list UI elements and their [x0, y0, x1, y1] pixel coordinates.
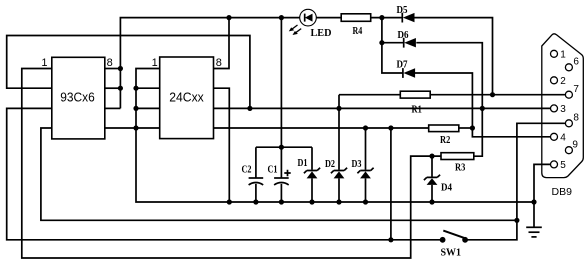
wire: R1 right to DB9 pin 7 [430, 94, 565, 96]
DB9 pin 9 [565, 147, 572, 154]
DB9 pin 3 [551, 105, 558, 112]
wire: D7 to corner, down, pin4 wire to DB9 pin 4 [413, 73, 550, 137]
svg-text:3: 3 [560, 104, 566, 115]
wire: rail from LED wire down to C1 top [280, 18, 282, 148]
wire: 93Cx6 right pin 6 [105, 107, 121, 109]
svg-text:DB9: DB9 [552, 186, 573, 198]
svg-text:D7: D7 [397, 59, 408, 70]
svg-text:1: 1 [41, 57, 47, 69]
resistor R1 [400, 91, 430, 98]
wire: D5 right, down rail to R1 wire [415, 18, 493, 95]
svg-text:8: 8 [573, 113, 579, 124]
wire: C1 leads [280, 147, 282, 202]
zener diode D3 [352, 159, 374, 178]
wire: 24Cxx left pin 3 [136, 107, 160, 109]
DB9 pin 7 [565, 91, 572, 98]
wire: 24Cxx pin3 long wire to DB9 pin 3 [214, 107, 551, 109]
junction dot: D7 rail on R2 right wire [470, 125, 475, 130]
junction dot: LED wire / D5-D7 rail [379, 15, 384, 20]
svg-text:2: 2 [560, 76, 566, 87]
svg-text:1: 1 [152, 57, 158, 69]
diode D7 [397, 59, 416, 78]
svg-text:R2: R2 [440, 135, 450, 146]
DB9 connector body [542, 34, 584, 178]
wire: D2 rail from R1 corner down to bus1 [338, 95, 340, 202]
capacitor C1 (electrolytic) [268, 164, 291, 185]
svg-text:C2: C2 [242, 164, 252, 175]
resistor R3 [441, 153, 474, 160]
resistor R2 [429, 125, 459, 132]
svg-text:8: 8 [216, 57, 222, 69]
wire: 24Cxx pin1 + left rail + bus1 to ground point [136, 69, 534, 203]
svg-text:9: 9 [572, 139, 578, 150]
junction dot: D3 rail on pin4 wire [363, 125, 368, 130]
wire: D6 right, down rail, to R3 right [416, 43, 482, 157]
zener diode D1 [298, 158, 321, 178]
svg-text:R1: R1 [412, 104, 422, 115]
junction dot: 93Cx6 pin8 / rail120 [118, 66, 123, 71]
wire: rail x=120 up to LED wire toward LED [120, 18, 300, 109]
junction dot: LED wire / 24Cxx pin8 rail [226, 15, 231, 20]
IC U1 93Cx6 [52, 57, 105, 139]
junction dot: D4 on R3 left wire [429, 154, 434, 159]
wire: D3 rail from pin4 wire down to bus1 [365, 128, 367, 202]
wire: rail from R2 wire down to bus3 [390, 128, 392, 240]
junction dot: ground node on bus1 [531, 199, 536, 204]
junction dot: D1 on bus1 [309, 199, 314, 204]
junction dot: C1 on bus1 [279, 199, 284, 204]
svg-text:D6: D6 [398, 30, 409, 41]
junction dot: bus3 rail on pin4 wire [388, 125, 393, 130]
wire: C2 leads [255, 147, 257, 202]
wire: R1 left wire from D2 rail corner [339, 94, 400, 96]
junction dot: R2 rail on bus3 [388, 237, 393, 242]
junction dot: D6 rail on pin3 wire [480, 106, 485, 111]
junction dot: top bus drop onto pin3 wire [247, 106, 252, 111]
zener diode D4 [424, 175, 453, 194]
svg-text:7: 7 [573, 84, 579, 95]
junction dot: 24Cxx pin2 / rail136 [133, 86, 138, 91]
svg-text:SW1: SW1 [441, 247, 462, 258]
junction dot: D3 on bus1 [363, 199, 368, 204]
DB9 pin 4 [551, 133, 558, 140]
svg-text:24Cxx: 24Cxx [169, 90, 204, 105]
DB9 pin 5 [551, 161, 558, 168]
svg-text:R4: R4 [353, 26, 363, 37]
svg-text:D4: D4 [441, 182, 453, 193]
junction dot: 24Cxx pin3 / rail136 [133, 106, 138, 111]
svg-text:1: 1 [560, 50, 566, 61]
svg-text:D5: D5 [397, 5, 408, 16]
junction dot: D4 on bus1 [429, 199, 434, 204]
wire: D1 leads [311, 147, 313, 202]
wire: 93Cx6 pin2 net to top bus, down to 24Cxx pin3 wire [7, 36, 250, 109]
wire: 93Cx6 pin4 net: left rail to bus2 [41, 128, 517, 220]
capacitor C2 [242, 164, 264, 185]
wire: DB9 pin5 to ground stem [534, 164, 551, 227]
DB9 pin 8 [565, 120, 572, 127]
wire: D4 leads [431, 156, 433, 202]
switch SW1 [440, 231, 468, 259]
junction dot: D2 rail on pin3 wire [336, 106, 341, 111]
junction dot: 24Cxx pin4 / rail136 [133, 125, 138, 130]
LED [289, 9, 332, 39]
wire: 24Cxx left pin 2 [136, 87, 160, 89]
svg-text:5: 5 [560, 160, 566, 171]
wire: 93Cx6 pin5 to 24Cxx pin4 [105, 127, 160, 129]
wire: 93Cx6 right pin 8 [105, 68, 121, 70]
svg-text:4: 4 [560, 133, 566, 144]
resistor R4 [341, 14, 371, 21]
junction dot: C2 on bus1 [253, 199, 258, 204]
DB9 pin 1 [551, 50, 558, 57]
DB9 pin 2 [551, 77, 558, 84]
svg-text:R3: R3 [455, 162, 465, 173]
svg-text:93Cx6: 93Cx6 [60, 90, 95, 105]
wire: 93Cx6 pin3 net: left rail to bus3 to SW1 left [7, 108, 443, 239]
wire: rail from LED wire down to 24Cxx pin 8 [214, 18, 230, 69]
wire: 93Cx6 right pin 7 [105, 87, 121, 89]
diode D5 [397, 5, 415, 23]
zener diode D2 [325, 159, 347, 178]
svg-text:D1: D1 [298, 158, 308, 169]
wire: 93Cx6 pin1 net: left rail, bottom bus4, up right side to R3 left [22, 69, 441, 259]
junction dot: D5 rail on R1 wire [490, 92, 495, 97]
DB9 pin 6 [565, 64, 572, 71]
junction dot: LED wire / C1 rail [279, 15, 284, 20]
junction dot: D6 rail branch [379, 40, 384, 45]
svg-text:C1: C1 [268, 164, 278, 175]
wire: R2 right to D7 rail [459, 127, 473, 129]
wire: 24Cxx right pin 2 jog down to ground bus1 [214, 88, 230, 202]
wire: 24Cxx pin4 long wire to R2 left [214, 127, 429, 129]
wire: R4 right to D5 bar [371, 17, 403, 19]
IC U2 24Cxx [160, 57, 214, 139]
wire: rail from R4 dot down to D7 [382, 18, 403, 73]
diode D6 [398, 30, 416, 48]
wire: cap top wire C2 to D1 [256, 146, 312, 148]
svg-text:D3: D3 [352, 159, 362, 170]
junction dot: 24Cxx pin2 rail on bus1 [227, 199, 232, 204]
ground [526, 227, 542, 237]
junction dot: D2 on bus1 [336, 199, 341, 204]
svg-text:8: 8 [107, 57, 113, 69]
wire: D6 left wire from rail dot [382, 42, 404, 44]
junction dot: 93Cx6 pin7 / rail120 [118, 86, 123, 91]
junction dot: C1 on cap top wire [279, 145, 284, 150]
junction dot: pin8 riser on bus2 end [514, 218, 519, 223]
wire: SW1 right to DB9 pin8 [465, 123, 565, 240]
svg-text:D2: D2 [325, 159, 335, 170]
svg-text:LED: LED [311, 28, 332, 39]
wire: LED right to R4 left [316, 17, 341, 19]
svg-text:6: 6 [573, 57, 579, 68]
